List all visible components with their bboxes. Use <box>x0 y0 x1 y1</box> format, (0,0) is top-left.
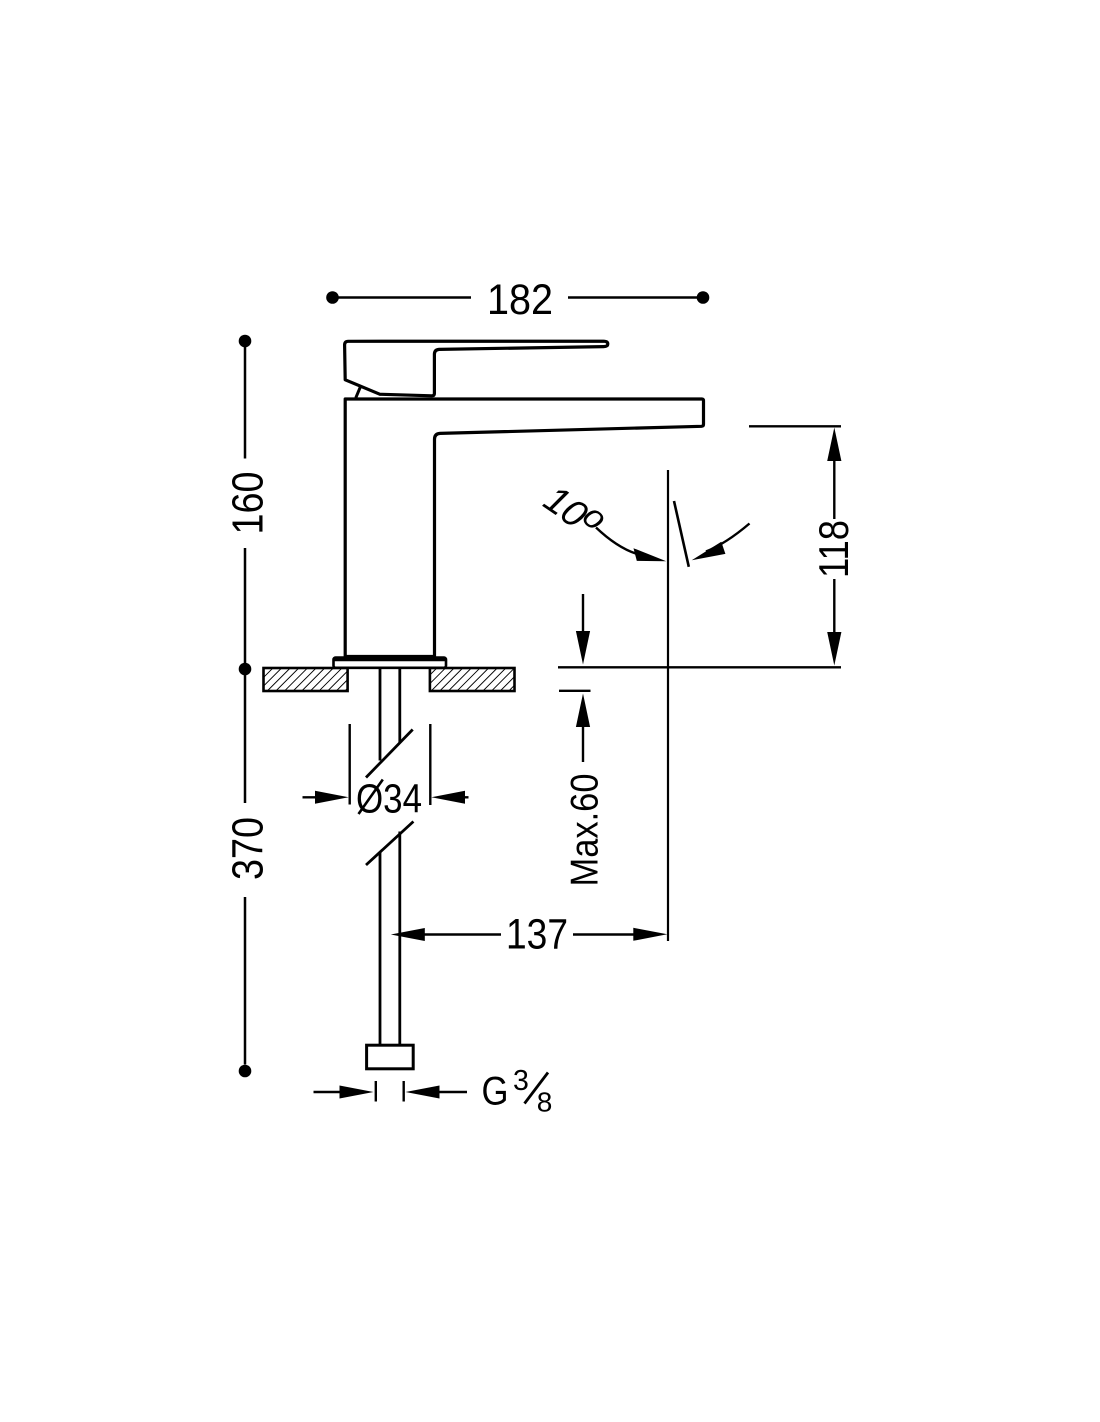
svg-text:182: 182 <box>487 276 553 324</box>
dim 118 lower arrow <box>833 579 835 643</box>
dim 118 top tick <box>749 425 841 427</box>
supply pipe lower right line <box>398 832 401 1046</box>
dim O34 right extension line <box>429 724 431 805</box>
dim G3/8 right arrow <box>432 1091 467 1093</box>
svg-text:118: 118 <box>810 520 857 578</box>
outlet axis tilted line 10deg <box>674 501 689 567</box>
dim 160 line upper segment <box>244 341 247 459</box>
label 10 deg <box>536 478 614 538</box>
dim Max.60 lower tick <box>559 690 591 692</box>
supply pipe upper right line <box>398 669 401 743</box>
svg-text:Max.60: Max.60 <box>564 774 607 887</box>
svg-text:8: 8 <box>537 1087 553 1118</box>
dim Max.60 lower arrow <box>576 694 590 728</box>
angle arc left with arrow <box>596 528 637 555</box>
dim 370 line upper segment <box>244 669 247 803</box>
dim G3/8 left tick <box>375 1081 377 1102</box>
dim 182 line right segment <box>568 296 700 299</box>
dim Max.60 upper arrow <box>582 594 584 634</box>
countertop left slab hatched <box>264 668 348 691</box>
dim 118 upper arrow <box>827 428 841 462</box>
angle arc right with arrow <box>706 524 750 552</box>
dim G3/8 right tick <box>403 1081 405 1102</box>
svg-text:160: 160 <box>224 472 273 535</box>
dim O34 right arrow <box>455 796 469 798</box>
countertop right slab hatched <box>430 668 515 691</box>
base flange <box>334 658 447 668</box>
base flange thick top edge <box>334 658 446 662</box>
left dim line: top dot <box>239 335 252 348</box>
dim 160 line lower segment <box>244 548 247 669</box>
left dim line: bottom dot <box>239 1065 252 1078</box>
dim 137 left arrow at pipe axis <box>391 928 425 941</box>
dim O34 left extension line <box>349 724 351 805</box>
supply pipe upper left line <box>379 669 382 761</box>
reference line counter level right <box>558 666 841 668</box>
pipe break symbol upper <box>366 730 413 778</box>
svg-text:O34: O34 <box>356 776 422 822</box>
pipe break symbol lower <box>366 822 413 866</box>
dim 182 top: left dot <box>326 291 339 304</box>
svg-text:370: 370 <box>224 817 273 880</box>
svg-text:G: G <box>482 1070 509 1114</box>
outlet axis vertical centerline <box>667 470 669 941</box>
dim O34 left arrow <box>303 796 326 798</box>
dim 137 right arrow at axis line <box>573 933 637 935</box>
faucet handle outline <box>345 341 608 396</box>
faucet body and spout outline <box>345 399 703 657</box>
svg-text:3: 3 <box>513 1065 529 1097</box>
left dim line: middle dot <box>239 663 252 676</box>
supply pipe lower left line <box>379 853 382 1046</box>
dim 182 line left segment <box>336 296 471 299</box>
pipe end fitting G3/8 <box>367 1045 414 1069</box>
dim 182 top: right dot <box>697 291 710 304</box>
dim 370 line lower segment <box>244 897 247 1065</box>
dim G3/8 left arrow <box>314 1091 349 1093</box>
svg-text:137: 137 <box>506 911 568 959</box>
faucet handle front tip tick <box>356 386 361 398</box>
